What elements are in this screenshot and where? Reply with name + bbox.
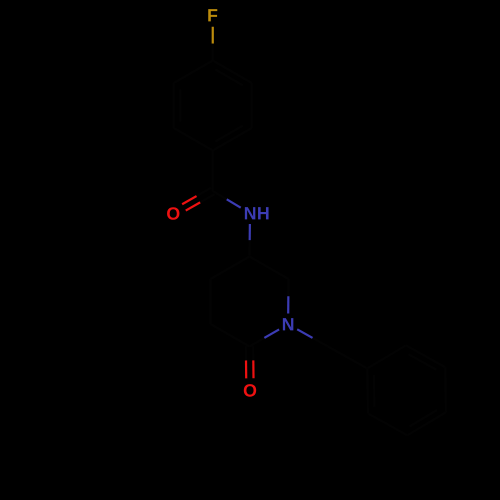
benzene bond C5-C6 — [173, 83, 175, 128]
atom label N of NH (amide nitrogen) — [245, 207, 255, 219]
piperidinone bond C5-C6 — [250, 257, 289, 280]
benzene bond C2-C3 — [251, 83, 253, 128]
benzene inner line C5-C6 — [179, 90, 181, 122]
benzene bond C6-C1 — [174, 61, 213, 84]
amide bond C7-N — [213, 191, 227, 199]
benzyl ring bond C5-C6 — [368, 413, 407, 435]
benzyl ring bond C3-C4 — [444, 367, 447, 412]
piperidinone bond C4-C5 — [211, 257, 250, 280]
piperidinone bond C2-C3 — [211, 324, 250, 347]
piperidinone bond C3-C4 — [209, 279, 211, 324]
atom label O (amide oxygen) — [167, 207, 179, 220]
lactam double bond C2=O2 — [245, 347, 247, 361]
benzyl ring bond C4-C5 — [407, 412, 446, 435]
benzyl ring bond C2-C3 — [406, 345, 445, 367]
benzyl ring bond ipso-C2 — [367, 345, 406, 368]
bond C4-C7 (to amide C) — [212, 151, 214, 192]
amide double bond C7=O1 — [197, 188, 211, 196]
piperidinone bond C6-N1 — [287, 279, 289, 296]
benzyl ring bond C6-ipso — [366, 368, 369, 413]
benzyl inner line a — [408, 354, 436, 370]
benzene inner line C3-C4 — [215, 126, 243, 142]
benzyl inner line b — [410, 410, 437, 426]
piperidinone bond N1-C2 — [264, 329, 279, 338]
benzene bond C4-C5 — [174, 128, 213, 151]
atom label H of NH — [258, 207, 268, 219]
bond N1-CH2 (benzyl) — [297, 329, 312, 338]
bond CH2-ipso — [328, 347, 367, 369]
benzene bond C1-C2 — [213, 61, 252, 84]
bond F-C1 — [212, 27, 214, 44]
benzene bond C3-C4 — [213, 128, 252, 151]
benzyl inner line c — [373, 375, 376, 407]
atom label N (lactam nitrogen) — [283, 318, 293, 330]
benzene inner line C1-C2 — [215, 69, 243, 85]
atom label F (fluorine) — [208, 9, 217, 21]
bond amide N - C5 ring — [249, 224, 251, 240]
atom label O (lactam oxygen) — [244, 384, 256, 397]
